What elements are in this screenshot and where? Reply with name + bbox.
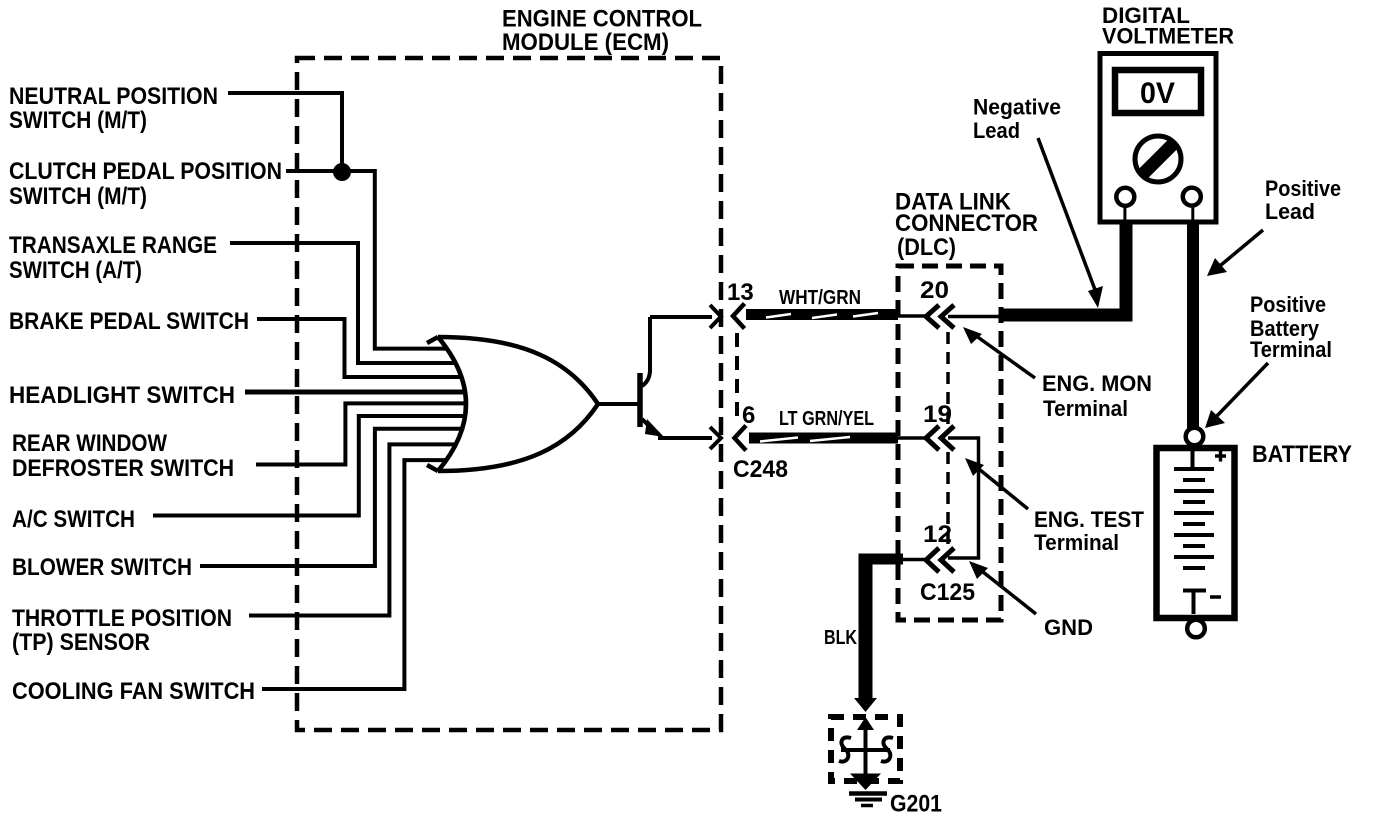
svg-text:0V: 0V	[1140, 77, 1175, 110]
svg-text:GND: GND	[1044, 615, 1093, 640]
wire jumper pin19 to pin12	[948, 438, 979, 558]
callout Negative Lead	[973, 95, 1103, 309]
svg-text:DEFROSTER SWITCH: DEFROSTER SWITCH	[12, 455, 234, 482]
svg-text:A/C SWITCH: A/C SWITCH	[12, 506, 135, 533]
svg-text:G201: G201	[890, 791, 942, 818]
voltmeter M1 body	[1100, 54, 1216, 223]
DLC pin 12	[923, 521, 954, 572]
svg-text:Lead: Lead	[1265, 199, 1315, 224]
wire throttle position sensor	[249, 444, 456, 615]
battery case	[1157, 448, 1235, 618]
svg-text:BLK: BLK	[824, 627, 857, 649]
label: REAR WINDOW DEFROSTER SWITCH	[12, 430, 234, 482]
wire A/C switch	[153, 416, 465, 516]
svg-text:(TP) SENSOR: (TP) SENSOR	[12, 629, 150, 656]
voltmeter display window	[1115, 70, 1201, 113]
arrowhead into ground	[854, 698, 877, 712]
label: THROTTLE POSITION (TP) SENSOR	[12, 605, 232, 656]
label: TRANSAXLE RANGE SWITCH (A/T)	[9, 232, 217, 284]
svg-text:Positive: Positive	[1265, 176, 1341, 201]
svg-text:REAR WINDOW: REAR WINDOW	[12, 430, 167, 457]
svg-text:BATTERY: BATTERY	[1252, 441, 1352, 468]
svg-text:Lead: Lead	[973, 118, 1020, 143]
arrow into ECM edge (pin 6)	[710, 427, 721, 449]
svg-text:C125: C125	[920, 579, 975, 606]
arrow into ECM edge (pin 13)	[710, 305, 721, 328]
wire WHT/GRN	[746, 287, 898, 318]
ground G201 dashed box	[831, 717, 900, 781]
svg-text:20: 20	[920, 277, 949, 304]
svg-text:NEUTRAL POSITION: NEUTRAL POSITION	[9, 83, 218, 110]
callout Positive Lead	[1207, 176, 1341, 276]
voltmeter terminal stems	[1123, 197, 1126, 222]
ECM dashed box U1	[297, 58, 721, 730]
connector C248 pin 13	[727, 279, 754, 329]
svg-text:CLUTCH PEDAL POSITION: CLUTCH PEDAL POSITION	[9, 158, 282, 185]
wire emitter to pin 6	[658, 436, 712, 440]
wire headlight switch	[245, 390, 465, 395]
svg-text:VOLTMETER: VOLTMETER	[1102, 24, 1234, 49]
svg-text:CONNECTOR: CONNECTOR	[895, 210, 1038, 237]
DLC pin 19	[923, 401, 954, 450]
svg-text:ENG. MON: ENG. MON	[1042, 371, 1152, 396]
wire blower switch	[200, 429, 462, 566]
wire clutch pedal position switch	[286, 171, 447, 349]
svg-text:SWITCH (M/T): SWITCH (M/T)	[9, 183, 147, 210]
voltmeter positive terminal	[1183, 188, 1201, 206]
svg-text:C248: C248	[733, 456, 788, 483]
svg-text:BLOWER SWITCH: BLOWER SWITCH	[12, 554, 192, 581]
label: CLUTCH PEDAL POSITION SWITCH (M/T)	[9, 158, 282, 210]
battery BT1	[1157, 428, 1235, 638]
svg-text:(DLC): (DLC)	[897, 234, 956, 261]
transistor Q1	[640, 317, 664, 437]
battery top terminal	[1186, 428, 1204, 446]
voltmeter negative terminal	[1116, 188, 1134, 206]
svg-text:Terminal: Terminal	[1034, 530, 1119, 555]
node junction dot	[333, 163, 351, 181]
svg-text:Positive: Positive	[1250, 292, 1326, 317]
ground G201 symbol	[839, 717, 893, 776]
svg-text:TRANSAXLE RANGE: TRANSAXLE RANGE	[9, 232, 217, 259]
wire rear window defroster switch	[256, 403, 466, 464]
callout ENG. MON Terminal	[963, 327, 1152, 421]
svg-text:THROTTLE POSITION: THROTTLE POSITION	[12, 605, 232, 632]
DLC internal dashed link	[946, 332, 950, 424]
wire pin20 lead-in	[898, 314, 926, 318]
connector C248 pin 6	[735, 402, 756, 451]
svg-text:HEADLIGHT SWITCH: HEADLIGHT SWITCH	[9, 382, 235, 409]
wire pin12 to BLK ground wire	[859, 554, 904, 565]
svg-text:LT GRN/YEL: LT GRN/YEL	[779, 408, 874, 430]
svg-text:13: 13	[727, 279, 754, 306]
svg-text:WHT/GRN: WHT/GRN	[779, 287, 861, 309]
wire gate output to transistor base	[598, 402, 638, 406]
wire positive lead	[1187, 222, 1199, 428]
callout ENG. TEST Terminal	[965, 458, 1145, 555]
svg-text:Terminal: Terminal	[1250, 337, 1332, 362]
battery plus sign	[1215, 451, 1226, 462]
wire neutral position switch	[228, 93, 342, 170]
svg-text:COOLING FAN SWITCH: COOLING FAN SWITCH	[12, 678, 255, 705]
battery plates	[1174, 449, 1214, 614]
voltmeter title	[1102, 3, 1234, 49]
connector C248 dashed link	[735, 333, 739, 422]
voltmeter dial	[1134, 135, 1183, 184]
wire pin20 to voltmeter negative lead	[948, 315, 1001, 319]
svg-text:Terminal: Terminal	[1043, 396, 1128, 421]
svg-text:SWITCH (A/T): SWITCH (A/T)	[9, 257, 142, 284]
wire BLK	[824, 555, 866, 699]
svg-text:MODULE (ECM): MODULE (ECM)	[502, 29, 669, 56]
battery minus sign	[1210, 595, 1221, 599]
ECM title	[502, 6, 702, 57]
svg-text:ENG. TEST: ENG. TEST	[1034, 507, 1145, 532]
wire transaxle range switch	[230, 243, 455, 363]
DLC pin 20	[920, 277, 954, 328]
callout GND	[969, 561, 1093, 640]
DLC dashed box	[898, 266, 1001, 620]
wire pin19 lead-in	[898, 436, 926, 440]
svg-text:Negative: Negative	[973, 95, 1061, 120]
DLC title	[895, 189, 1038, 262]
svg-text:BRAKE PEDAL SWITCH: BRAKE PEDAL SWITCH	[9, 308, 249, 335]
wire cooling fan switch	[262, 460, 446, 689]
ground stack	[849, 774, 887, 806]
svg-text:SWITCH (M/T): SWITCH (M/T)	[9, 107, 147, 134]
wire collector to pin 13	[650, 315, 712, 319]
battery bottom terminal	[1187, 620, 1205, 638]
OR gate	[427, 337, 598, 471]
wire negative lead	[1120, 222, 1133, 322]
label: NEUTRAL POSITION SWITCH (M/T)	[9, 83, 218, 134]
callout Positive Battery Terminal	[1205, 292, 1332, 428]
wire brake pedal switch	[257, 319, 461, 377]
wire LT GRN/YEL	[749, 408, 898, 442]
